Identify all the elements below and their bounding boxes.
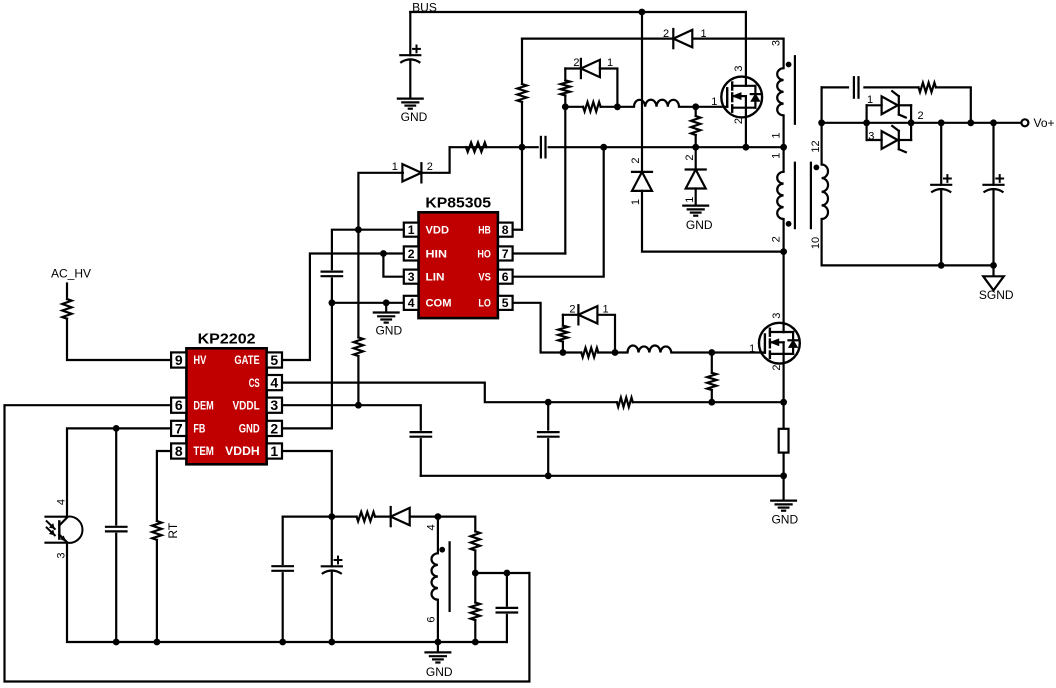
svg-text:12: 12 — [810, 140, 822, 152]
svg-text:10: 10 — [810, 237, 822, 249]
svg-text:LIN: LIN — [426, 272, 445, 284]
svg-text:SGND: SGND — [979, 288, 1014, 302]
svg-text:FB: FB — [193, 423, 205, 436]
svg-text:BUS: BUS — [412, 0, 437, 14]
svg-text:DEM: DEM — [193, 399, 213, 412]
svg-text:KP85305: KP85305 — [425, 196, 491, 212]
svg-text:2: 2 — [408, 247, 415, 261]
svg-text:2: 2 — [771, 365, 783, 371]
svg-text:GATE: GATE — [234, 354, 259, 367]
svg-text:GND: GND — [686, 218, 713, 232]
svg-text:1: 1 — [603, 303, 609, 315]
svg-text:2: 2 — [569, 303, 575, 315]
svg-text:2: 2 — [684, 154, 696, 160]
svg-text:Vo+: Vo+ — [1033, 116, 1054, 130]
svg-text:1: 1 — [771, 153, 783, 159]
svg-text:2: 2 — [663, 28, 669, 40]
svg-text:KP2202: KP2202 — [198, 332, 256, 348]
svg-text:6: 6 — [175, 397, 183, 413]
svg-text:4: 4 — [55, 499, 67, 505]
svg-text:6: 6 — [426, 617, 438, 623]
svg-text:TEM: TEM — [193, 445, 214, 458]
svg-text:3: 3 — [408, 270, 415, 284]
svg-text:3: 3 — [771, 40, 783, 46]
svg-text:HO: HO — [477, 248, 491, 260]
svg-text:GND: GND — [426, 665, 453, 679]
svg-text:VDDH: VDDH — [225, 445, 260, 458]
svg-text:5: 5 — [502, 296, 509, 310]
svg-text:7: 7 — [502, 247, 509, 261]
svg-text:VS: VS — [478, 272, 491, 284]
svg-text:CS: CS — [249, 377, 260, 390]
svg-text:HIN: HIN — [426, 248, 448, 260]
svg-text:2: 2 — [733, 118, 745, 124]
svg-text:GND: GND — [771, 513, 798, 527]
svg-text:1: 1 — [392, 161, 398, 173]
svg-text:LO: LO — [478, 298, 491, 310]
svg-text:3: 3 — [55, 553, 67, 559]
svg-text:1: 1 — [684, 197, 696, 203]
svg-text:2: 2 — [427, 161, 433, 173]
svg-text:1: 1 — [701, 28, 707, 40]
svg-text:COM: COM — [426, 298, 452, 310]
svg-text:4: 4 — [270, 375, 278, 391]
svg-text:9: 9 — [175, 352, 183, 368]
svg-text:1: 1 — [630, 199, 642, 205]
svg-text:5: 5 — [270, 352, 278, 368]
svg-text:VDD: VDD — [426, 225, 450, 237]
svg-text:3: 3 — [868, 131, 874, 143]
svg-text:3: 3 — [270, 397, 278, 413]
svg-text:1: 1 — [867, 94, 873, 106]
svg-text:GND: GND — [375, 324, 402, 338]
svg-text:8: 8 — [502, 223, 509, 237]
svg-text:6: 6 — [502, 270, 509, 284]
svg-text:1: 1 — [270, 443, 278, 459]
svg-text:8: 8 — [175, 443, 183, 459]
svg-text:2: 2 — [573, 57, 579, 69]
svg-text:1: 1 — [607, 57, 613, 69]
svg-text:2: 2 — [630, 157, 642, 163]
svg-text:4: 4 — [426, 524, 438, 530]
svg-text:1: 1 — [771, 132, 783, 138]
svg-text:GND: GND — [401, 110, 428, 124]
svg-text:2: 2 — [771, 236, 783, 242]
svg-text:2: 2 — [270, 420, 278, 436]
svg-text:3: 3 — [733, 66, 745, 72]
svg-text:7: 7 — [175, 420, 183, 436]
svg-text:3: 3 — [771, 313, 783, 319]
svg-text:VDDL: VDDL — [233, 399, 260, 412]
svg-text:AC_HV: AC_HV — [51, 267, 91, 281]
svg-text:HV: HV — [193, 354, 206, 367]
svg-text:2: 2 — [918, 110, 924, 122]
svg-text:GND: GND — [239, 423, 260, 436]
svg-text:RT: RT — [166, 522, 180, 538]
svg-text:1: 1 — [711, 96, 717, 108]
svg-text:HB: HB — [478, 225, 491, 237]
svg-text:1: 1 — [408, 223, 415, 237]
svg-text:4: 4 — [408, 296, 415, 310]
